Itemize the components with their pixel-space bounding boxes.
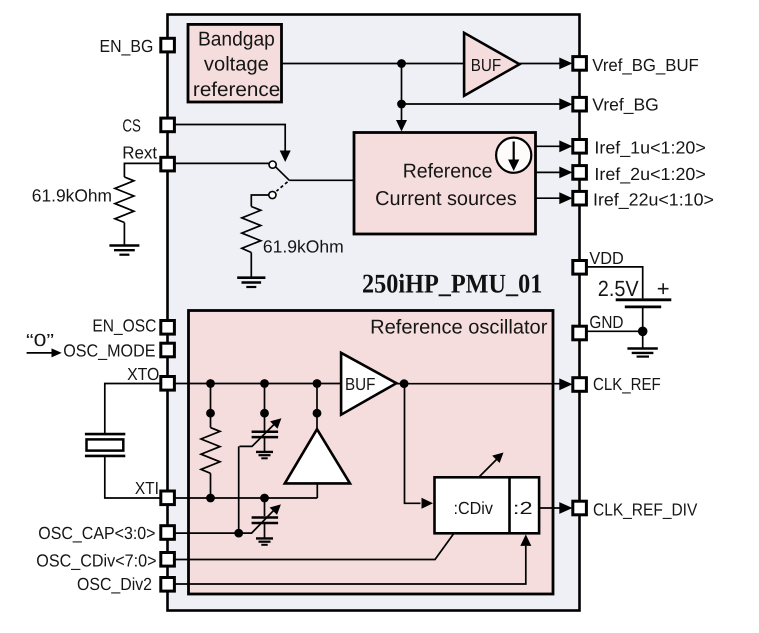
- current source symbol inside box: [496, 138, 531, 173]
- pin label Iref_1u<1:20>: [594, 138, 705, 158]
- wire: divider output to CLK_REF_DIV pin with arrow: [539, 502, 573, 514]
- wire: junction down to divider with arrow: [405, 384, 434, 509]
- wire: BUF U2 output to CLK_REF pin with arrow: [396, 378, 572, 390]
- wire: junction 3 drop: [316, 384, 318, 414]
- wire: Rext to external resistor R1: [124, 163, 161, 177]
- value label 61.9kOhm (left): [32, 186, 112, 206]
- pin Vref_BG_BUF: [573, 57, 587, 71]
- wire: junction 2 drop: [264, 384, 266, 414]
- svg-text:Vref_BG_BUF: Vref_BG_BUF: [592, 55, 699, 75]
- wire: switch pole to current sources box: [289, 179, 354, 181]
- svg-text:61.9kOhm: 61.9kOhm: [32, 186, 112, 206]
- wire: BUF output to Vref_BG_BUF pin with arrow: [520, 58, 573, 70]
- svg-text:XTO: XTO: [127, 364, 159, 384]
- wire: junction to ground: [642, 331, 644, 348]
- node: CLK_REF junction: [400, 379, 409, 388]
- divider block :CDiv: [435, 477, 540, 533]
- node: amp input: [313, 409, 322, 418]
- ground (battery): [627, 349, 657, 357]
- node: bandgap output junction: [397, 59, 406, 68]
- pin VDD: [573, 261, 587, 275]
- pin OSC_CAP: [161, 526, 175, 540]
- resistor R2 61.9kOhm: [242, 207, 261, 253]
- svg-text:Vref_BG: Vref_BG: [592, 94, 659, 114]
- pin label GND: [589, 312, 623, 332]
- pin Vref_BG: [573, 97, 587, 111]
- node: GND junction: [638, 327, 648, 337]
- svg-text:VDD: VDD: [589, 248, 623, 268]
- node: XTO wire junction 2: [260, 379, 269, 388]
- pin label OSC_MODE: [63, 341, 155, 361]
- wire: GND pin to battery: [587, 330, 643, 332]
- wire: OSC_CDiv pin to divider: [175, 534, 454, 560]
- svg-text:EN_BG: EN_BG: [100, 36, 154, 56]
- pin label Iref_2u<1:20>: [594, 164, 705, 184]
- svg-text:BUF: BUF: [471, 55, 501, 75]
- block: reference current sources box: [354, 133, 536, 235]
- switch blade closed to contact a: [276, 167, 289, 180]
- svg-text::CDiv: :CDiv: [454, 498, 494, 518]
- pin Iref_2u: [573, 166, 587, 180]
- op-amp U2 BUF (oscillator buffer): [341, 353, 396, 415]
- pin label XTO: [127, 364, 159, 384]
- pin label Vref_BG: [592, 94, 659, 114]
- node: OSC_CAP junction: [234, 529, 243, 538]
- wire: junction 1 drop: [210, 384, 212, 414]
- svg-text:CLK_REF: CLK_REF: [593, 374, 661, 394]
- capacitor C2 (varactor): [252, 518, 279, 539]
- node: XTI junction R3: [206, 494, 215, 503]
- wire: XTI pin to amp output: [175, 497, 318, 499]
- switch SW1 contact a: [269, 161, 276, 168]
- wire: R1 to ground: [123, 223, 125, 246]
- op-amp A1 (oscillator inverter): [285, 429, 350, 483]
- value label 61.9kOhm (right): [263, 236, 344, 256]
- capacitor C1 (varactor): [252, 432, 279, 452]
- wire: R3 bottom lead to XTI wire: [210, 473, 212, 498]
- wire: Rext pin to switch pole: [175, 162, 270, 164]
- svg-text:61.9kOhm: 61.9kOhm: [263, 236, 344, 256]
- pin label CLK_REF_DIV: [593, 500, 698, 520]
- wire: R3 top lead: [210, 413, 212, 427]
- svg-text:Reference: Reference: [403, 161, 493, 183]
- pin Iref_22u: [573, 191, 587, 205]
- pin OSC_Div2: [161, 578, 175, 592]
- wire: amp input lead: [316, 413, 318, 429]
- pin XTO: [161, 377, 175, 391]
- wire: Iref_2u output with arrow: [536, 167, 573, 179]
- plus sign label: [657, 276, 670, 301]
- node: resistor R3 top: [206, 409, 215, 418]
- wire: XTO pin to oscillator BUF input: [175, 383, 342, 385]
- node: XTO wire junction 1: [206, 379, 215, 388]
- wire: varactor C1 top lead: [264, 413, 266, 430]
- pin label XTI: [135, 478, 159, 498]
- block: reference oscillator box: [189, 311, 554, 595]
- wire: Iref_1u output with arrow: [536, 140, 573, 152]
- svg-text:CLK_REF_DIV: CLK_REF_DIV: [593, 500, 698, 520]
- svg-text:250iHP_PMU_01: 250iHP_PMU_01: [362, 268, 542, 298]
- svg-text:OSC_CAP<3:0>: OSC_CAP<3:0>: [38, 523, 155, 543]
- svg-text:“0”: “0”: [26, 330, 54, 350]
- wire: Iref_22u output with arrow: [536, 192, 573, 204]
- pin label Vref_BG_BUF: [592, 55, 699, 75]
- switch blade open (dashed) to contact b: [277, 182, 288, 191]
- wire: switch contact b to resistor R2: [251, 195, 269, 207]
- varactor C1 control arrow: [240, 418, 282, 446]
- pin label OSC_CDiv<7:0>: [36, 550, 156, 570]
- pin XTI: [161, 491, 175, 505]
- pin Iref_1u: [573, 140, 587, 154]
- pin OSC_CDiv: [161, 553, 175, 567]
- pin CS: [161, 118, 175, 132]
- svg-text:Iref_22u<1:10>: Iref_22u<1:10>: [593, 190, 714, 210]
- battery V1 2.5V: [616, 300, 672, 307]
- pin CLK_REF: [573, 378, 587, 392]
- pin CLK_REF_DIV: [573, 501, 587, 515]
- switch SW1 contact b: [269, 191, 276, 198]
- svg-text:Iref_1u<1:20>: Iref_1u<1:20>: [594, 138, 705, 158]
- pin label CS: [122, 115, 141, 135]
- wire: OSC_CAP pin to control node: [175, 532, 239, 534]
- pin EN_OSC: [161, 321, 175, 335]
- wire: R2 to ground: [250, 253, 252, 278]
- ground (C2): [256, 538, 273, 544]
- wire: Vref_BG to pin with arrow: [402, 98, 573, 110]
- wire: OSC_Div2 pin to :2 divider with arrow: [175, 534, 532, 584]
- pin label OSC_CAP<3:0>: [38, 523, 155, 543]
- ground (C1): [256, 452, 273, 458]
- pin label CLK_REF: [593, 374, 661, 394]
- wire: bandgap output to BUF: [282, 63, 465, 65]
- pin label VDD: [589, 248, 623, 268]
- pin EN_BG: [161, 38, 175, 52]
- wire: amp output to XTI wire: [316, 483, 318, 498]
- pin Rext: [161, 157, 175, 171]
- varactor C2 control arrow: [239, 504, 281, 533]
- svg-text:BUF: BUF: [345, 374, 375, 394]
- value label 2.5V: [598, 276, 639, 301]
- wire: CS control to switch with arrow: [175, 125, 291, 163]
- svg-text:CS: CS: [122, 115, 141, 135]
- svg-text:2.5V: 2.5V: [598, 276, 639, 301]
- node: varactor C1 top: [260, 409, 269, 418]
- svg-text:Current sources: Current sources: [375, 188, 517, 210]
- svg-text:Iref_2u<1:20>: Iref_2u<1:20>: [594, 164, 705, 184]
- op-amp U1 BUF: [464, 33, 519, 96]
- node: Vref_BG junction: [397, 100, 406, 109]
- svg-text:EN_OSC: EN_OSC: [92, 315, 156, 335]
- svg-text::2: :2: [513, 498, 533, 518]
- node: XTO wire junction 3: [313, 379, 322, 388]
- wire: XTO pin to crystal: [105, 384, 161, 434]
- pin label OSC_Div2: [77, 574, 152, 594]
- resistor R1 61.9kOhm: [115, 177, 134, 223]
- svg-text:Rext: Rext: [122, 143, 157, 163]
- wire: crystal to XTI pin: [105, 457, 161, 498]
- resistor R3: [201, 428, 220, 474]
- svg-text:XTI: XTI: [135, 478, 159, 498]
- wire: control node up to varactor C1 arrow: [238, 446, 240, 533]
- svg-text:OSC_Div2: OSC_Div2: [77, 574, 152, 594]
- wire: junction down into current sources box with arrow: [396, 104, 407, 132]
- pin OSC_MODE: [161, 343, 175, 357]
- title 250iHP_PMU_01: [362, 268, 542, 298]
- net label "0" with arrow: [26, 330, 62, 357]
- svg-text:OSC_MODE: OSC_MODE: [63, 341, 155, 361]
- svg-text:reference: reference: [193, 79, 280, 101]
- svg-text:Bandgap: Bandgap: [198, 28, 275, 50]
- chip body 250iHP_PMU_01 outline: [168, 15, 580, 611]
- pin label Iref_22u<1:10>: [593, 190, 714, 210]
- wire: VDD pin to battery: [587, 267, 643, 299]
- wire: varactor C2 top lead: [264, 498, 266, 516]
- ground (R1): [109, 246, 139, 255]
- svg-text:GND: GND: [589, 312, 623, 332]
- svg-text:voltage: voltage: [204, 54, 269, 76]
- svg-text:+: +: [657, 276, 670, 301]
- crystal X1: [85, 434, 125, 456]
- wire: junction down to Vref_BG node: [401, 64, 403, 105]
- svg-text:Reference oscillator: Reference oscillator: [370, 316, 548, 338]
- pin GND: [573, 326, 587, 340]
- svg-text:OSC_CDiv<7:0>: OSC_CDiv<7:0>: [36, 550, 156, 570]
- divider tuning arrow: [480, 453, 504, 477]
- pin label EN_BG: [100, 36, 154, 56]
- wire: battery minus to GND net: [642, 307, 644, 331]
- pin label EN_OSC: [92, 315, 156, 335]
- block: bandgap voltage reference box: [188, 24, 282, 102]
- node: XTI junction C2: [260, 494, 269, 503]
- pin label Rext: [122, 143, 157, 163]
- ground (R2): [237, 278, 265, 287]
